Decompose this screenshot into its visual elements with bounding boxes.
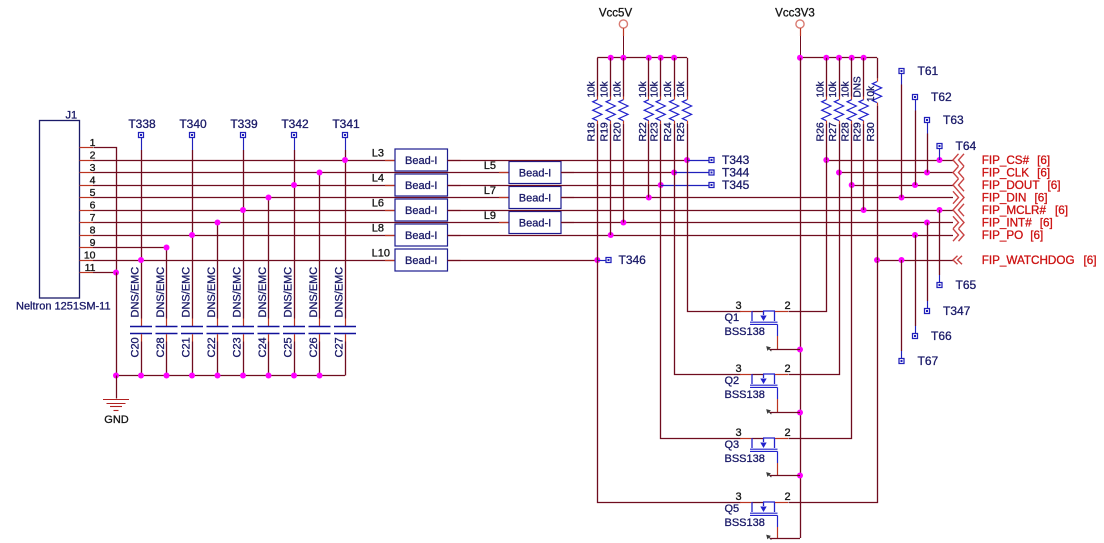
- svg-text:2: 2: [784, 300, 790, 312]
- svg-text:DNS/EMC: DNS/EMC: [155, 267, 167, 318]
- svg-text:R26: R26: [814, 122, 826, 141]
- svg-text:Q2: Q2: [725, 375, 740, 387]
- J1 pin 1 (stub and pin number): [80, 137, 96, 149]
- ferrite bead L10: [385, 249, 461, 271]
- off-page connector FIP_WATCHDOG: [953, 256, 962, 264]
- wire C23 column (junction to cap): [243, 210, 245, 319]
- svg-text:10k: 10k: [841, 80, 852, 97]
- junction C26 tap on pin 3 row: [317, 170, 323, 176]
- svg-text:FIP_PO[6]: FIP_PO[6]: [982, 229, 1044, 242]
- svg-text:R22: R22: [637, 122, 649, 141]
- wire T61 to row: [901, 85, 903, 198]
- junction Vcc3V3 stem on bus: [797, 55, 803, 61]
- svg-text:3: 3: [735, 491, 741, 503]
- junction Q2 source on Vcc3V3 column: [797, 410, 803, 416]
- svg-text:Q5: Q5: [725, 503, 740, 515]
- wire L6 output / FIP_MCLR# row: [448, 210, 954, 212]
- wire L3 output to T343: [448, 160, 688, 162]
- svg-text:L7: L7: [484, 185, 496, 197]
- wire R25 column lower: [687, 124, 689, 160]
- wire R24 column to Q2 gate: [675, 173, 741, 375]
- wire FIP_CLK 3V3 segment: [839, 172, 953, 174]
- transistor Q5 BSS138 (MOSFET): [740, 502, 788, 540]
- wire C23 to ground rail: [243, 342, 245, 376]
- junction R29 on Vcc3V3 bus: [861, 55, 867, 61]
- off-page connector FIP_CS#: [953, 154, 964, 166]
- wire J1 pin 6 row: [93, 210, 395, 212]
- wire FIP_DOUT 3V3 segment: [852, 185, 953, 187]
- svg-text:4: 4: [90, 175, 96, 187]
- wire R23 column lower: [660, 124, 662, 185]
- wire R27 column to Q2 drain: [789, 173, 840, 375]
- ferrite bead L5: [499, 162, 574, 184]
- svg-text:R28: R28: [840, 122, 852, 141]
- test point T345: [709, 178, 750, 192]
- ferrite bead L4: [385, 174, 461, 196]
- svg-text:C25: C25: [283, 337, 295, 357]
- svg-text:L4: L4: [372, 173, 384, 185]
- wire T341 column to junction: [345, 150, 347, 160]
- svg-text:10k: 10k: [650, 80, 661, 97]
- svg-text:R29: R29: [852, 122, 864, 141]
- svg-text:T62: T62: [931, 90, 952, 104]
- junction C24 tap on pin 5 row: [266, 195, 272, 201]
- svg-text:10k: 10k: [866, 85, 877, 102]
- wire Vcc5V bus: [597, 57, 687, 59]
- wire J1 pin 1 to GND column: [94, 148, 117, 273]
- wire C28 column (junction to cap): [166, 248, 168, 319]
- resistor R30 10k: [872, 78, 881, 105]
- junction C25 on rail: [291, 373, 297, 379]
- wire R30 column to Q5 drain: [789, 261, 878, 503]
- svg-text:R18: R18: [585, 122, 597, 141]
- wire FIP_WATCHDOG 3V3 segment: [877, 260, 953, 262]
- wire J1 pin 11 row: [93, 272, 116, 274]
- wire Vcc3V3 column down to transistor sources: [800, 58, 802, 538]
- svg-text:2: 2: [90, 150, 96, 162]
- wire L7 output / FIP_DIN row: [561, 197, 953, 199]
- wire C24 column (junction to cap): [268, 198, 270, 319]
- junction R22 on FIP_DIN: [646, 195, 652, 201]
- svg-text:10k: 10k: [586, 80, 597, 97]
- svg-text:2: 2: [784, 363, 790, 375]
- svg-text:Bead-I: Bead-I: [405, 205, 437, 217]
- junction R30/Q5 drain on FIP_WATCHDOG: [874, 257, 880, 263]
- wire R18 column lower: [597, 124, 599, 260]
- J1 pin 5 (stub and pin number): [80, 187, 96, 199]
- junction R20 on Vcc5V bus: [620, 55, 626, 61]
- J1 pin 7 (stub and pin number): [80, 212, 96, 224]
- off-page connector FIP_DOUT: [953, 179, 964, 191]
- svg-text:C23: C23: [232, 337, 244, 357]
- svg-text:10k: 10k: [676, 80, 687, 97]
- wire L5 output to T344: [561, 172, 674, 174]
- svg-text:T64: T64: [956, 139, 977, 153]
- ferrite bead L7: [499, 187, 574, 209]
- wire T63 to row: [927, 134, 929, 173]
- wire T67 to row: [901, 260, 903, 351]
- junction R22 on Vcc5V bus: [646, 55, 652, 61]
- wire J1 pin 8 row: [93, 235, 395, 237]
- wire T65 to row: [939, 210, 941, 275]
- test point T63: [925, 113, 965, 134]
- test point T340: [179, 117, 207, 150]
- wire R24 column lower: [674, 124, 676, 173]
- junction T63 on FIP_CLK: [924, 170, 930, 176]
- junction C23 on rail: [240, 373, 246, 379]
- wire Q3 source to Vcc3V3 column: [770, 475, 800, 477]
- svg-text:T346: T346: [619, 253, 647, 267]
- wire R23 column to Q3 gate: [661, 186, 741, 439]
- wire C20 to ground rail: [141, 342, 143, 376]
- resistor R27 10k: [834, 97, 843, 124]
- junction R18 on L10 net: [594, 257, 600, 263]
- wire R22 column lower: [648, 124, 650, 198]
- svg-text:DNS/EMC: DNS/EMC: [181, 267, 193, 318]
- test point T62: [913, 90, 953, 111]
- capacitor C20: [130, 319, 152, 342]
- junction T67 on FIP_WATCHDOG: [899, 257, 905, 263]
- wire J1 pin 7 row: [93, 222, 509, 224]
- junction R28/Q3 drain on FIP_DOUT: [849, 182, 855, 188]
- wire L8 output / FIP_PO row: [448, 235, 954, 237]
- svg-text:L6: L6: [372, 198, 384, 210]
- svg-text:C24: C24: [257, 337, 269, 357]
- wire R23 column upper: [660, 58, 662, 97]
- svg-text:6: 6: [90, 200, 96, 212]
- svg-text:DNS/EMC: DNS/EMC: [130, 267, 142, 318]
- svg-text:T340: T340: [179, 117, 207, 131]
- svg-text:T338: T338: [128, 117, 156, 131]
- wire C27 to ground rail: [345, 342, 347, 376]
- svg-text:Bead-I: Bead-I: [519, 168, 551, 180]
- svg-text:T345: T345: [722, 178, 750, 192]
- svg-text:GND: GND: [104, 414, 129, 426]
- wire T64 to row: [939, 159, 941, 162]
- svg-text:Q1: Q1: [725, 312, 740, 324]
- junction C28 tap on pin 9 row: [164, 245, 170, 251]
- junction R26/Q1 drain on FIP_CS#: [823, 157, 829, 163]
- wire C21 column (junction to cap): [192, 235, 194, 319]
- junction T62 on FIP_DOUT: [912, 182, 918, 188]
- svg-text:R24: R24: [662, 122, 674, 141]
- junction R27/Q2 drain on FIP_CLK: [836, 170, 842, 176]
- junction T65 on FIP_MCLR#: [937, 207, 943, 213]
- svg-text:2: 2: [784, 491, 790, 503]
- wire Q2 source to Vcc3V3 column: [770, 412, 800, 414]
- test point T64: [937, 139, 977, 160]
- svg-text:C22: C22: [206, 337, 218, 357]
- wire R19 column upper: [610, 58, 612, 97]
- svg-text:DNS/EMC: DNS/EMC: [334, 267, 346, 318]
- svg-text:Neltron 1251SM-11: Neltron 1251SM-11: [16, 301, 111, 313]
- wire Vcc3V3 bus: [800, 57, 877, 59]
- wire ground rail: [116, 375, 345, 377]
- svg-text:DNS/EMC: DNS/EMC: [206, 267, 218, 318]
- test point T338: [128, 117, 156, 150]
- resistor R26 10k: [822, 97, 831, 124]
- J1 pin 8 (stub and pin number): [80, 225, 96, 237]
- wire R19 column lower: [610, 124, 612, 235]
- wire C26 to ground rail: [319, 342, 321, 376]
- junction R19 on Vcc5V bus: [608, 55, 614, 61]
- junction C26 on rail: [317, 373, 323, 379]
- off-page connector FIP_MCLR#: [953, 204, 964, 216]
- wire R25 column to Q1 gate: [688, 161, 741, 312]
- svg-text:FIP_DIN[6]: FIP_DIN[6]: [982, 192, 1048, 205]
- capacitor C27: [334, 319, 356, 342]
- svg-text:L9: L9: [484, 210, 496, 222]
- capacitor C21: [181, 319, 203, 342]
- junction C21 tap on pin 8 row: [189, 232, 195, 238]
- junction R19 on FIP_PO: [608, 232, 614, 238]
- ground symbol GND: [103, 376, 129, 411]
- svg-text:R27: R27: [827, 122, 839, 141]
- svg-text:T341: T341: [332, 117, 360, 131]
- test point T342: [281, 117, 309, 150]
- svg-text:DNS/EMC: DNS/EMC: [308, 267, 320, 318]
- svg-text:R23: R23: [649, 122, 661, 141]
- wire FIP_CS# 3V3 segment: [826, 160, 953, 162]
- J1 pin 9 (stub and pin number): [80, 237, 96, 249]
- power symbol Vcc5V: [619, 20, 627, 58]
- test point T343: [709, 153, 750, 167]
- wire T339 column to junction: [243, 150, 245, 210]
- resistor R20 10k: [619, 97, 628, 124]
- svg-text:T67: T67: [918, 354, 939, 368]
- svg-text:FIP_CLK[6]: FIP_CLK[6]: [982, 167, 1050, 180]
- wire R26 column to Q1 drain: [789, 161, 827, 312]
- svg-text:T347: T347: [943, 304, 971, 318]
- wire J1 pin 2 row: [93, 160, 395, 162]
- transistor Q1 BSS138 (MOSFET): [740, 311, 788, 351]
- svg-text:C26: C26: [308, 337, 320, 357]
- junction R23 on Vcc5V bus: [658, 55, 664, 61]
- junction C25 tap on pin 4 row: [291, 182, 297, 188]
- resistor R29 DNS: [859, 97, 868, 124]
- capacitor C23: [232, 319, 254, 342]
- resistor R25 10k: [682, 97, 691, 124]
- svg-text:T61: T61: [918, 64, 939, 78]
- junction Q1 source on Vcc3V3 column: [797, 347, 803, 353]
- test point T65: [937, 275, 977, 292]
- test point T346: [606, 253, 646, 267]
- wire T62 to row: [915, 111, 917, 186]
- svg-text:C28: C28: [155, 337, 167, 357]
- wire T340 column to junction: [192, 150, 194, 235]
- svg-text:T65: T65: [956, 278, 977, 292]
- wire R20 column upper: [623, 58, 625, 97]
- svg-text:C20: C20: [130, 337, 142, 357]
- wire R18 column to Q5 gate: [598, 261, 741, 503]
- capacitor C24: [258, 319, 280, 342]
- svg-text:FIP_WATCHDOG[6]: FIP_WATCHDOG[6]: [982, 254, 1097, 267]
- wire C26 column (junction to cap): [319, 173, 321, 319]
- svg-text:R30: R30: [865, 122, 877, 141]
- off-page connector FIP_PO: [953, 229, 964, 241]
- junction T64 on FIP_CS#: [937, 157, 943, 163]
- wire C22 to ground rail: [217, 342, 219, 376]
- svg-text:Bead-I: Bead-I: [519, 193, 551, 205]
- svg-text:Q3: Q3: [725, 439, 740, 451]
- resistor R18 10k: [593, 97, 602, 124]
- transistor Q2 BSS138 (MOSFET): [740, 374, 788, 414]
- wire J1 pin 3 row: [93, 172, 509, 174]
- wire C22 column (junction to cap): [217, 223, 219, 319]
- off-page connector FIP_INT#: [953, 216, 964, 228]
- wire T66 to row: [915, 235, 917, 326]
- wire Q5 source to Vcc3V3 column: [770, 538, 800, 540]
- wire L4 output to T345: [448, 185, 661, 187]
- wire R30 column lower: [877, 106, 879, 260]
- wire C28 to ground rail: [166, 342, 168, 376]
- svg-text:BSS138: BSS138: [725, 453, 765, 465]
- off-page connector FIP_CLK: [953, 166, 964, 178]
- svg-text:10k: 10k: [600, 80, 611, 97]
- svg-text:T342: T342: [281, 117, 309, 131]
- wire C25 to ground rail: [294, 342, 296, 376]
- svg-text:10: 10: [84, 250, 96, 262]
- svg-text:Bead-I: Bead-I: [405, 155, 437, 167]
- svg-text:T339: T339: [230, 117, 258, 131]
- junction R25 on FIP_CS# 5V side: [684, 157, 690, 163]
- wire R24 column upper: [674, 58, 676, 97]
- wire R26 column lower: [826, 124, 828, 160]
- resistor R19 10k: [606, 97, 615, 124]
- svg-text:C21: C21: [181, 337, 193, 357]
- svg-text:R25: R25: [675, 122, 687, 141]
- svg-text:L8: L8: [372, 223, 384, 235]
- junction C20 tap on pin 10 row: [138, 257, 144, 263]
- J1 pin 4 (stub and pin number): [80, 175, 96, 187]
- test point T347: [925, 301, 971, 318]
- junction C24 on rail: [266, 373, 272, 379]
- capacitor C26: [309, 319, 331, 342]
- J1 pin 3 (stub and pin number): [80, 162, 96, 174]
- svg-text:J1: J1: [66, 110, 78, 122]
- junction T347 on FIP_INT#: [924, 220, 930, 226]
- test point T67: [899, 351, 939, 368]
- svg-text:8: 8: [90, 225, 96, 237]
- svg-text:Vcc5V: Vcc5V: [599, 8, 633, 20]
- wire R28 column lower: [851, 124, 853, 185]
- svg-text:R20: R20: [611, 122, 623, 141]
- resistor R28 10k: [847, 97, 856, 124]
- svg-text:10k: 10k: [638, 80, 649, 97]
- test point T61: [899, 64, 939, 85]
- junction T61 on FIP_DIN: [899, 195, 905, 201]
- junction R29 on FIP_MCLR#: [861, 207, 867, 213]
- wire C20 column (junction to cap): [141, 260, 143, 319]
- wire R22 column upper: [648, 58, 650, 97]
- wire R30 column upper: [877, 58, 879, 79]
- junction C20 on rail: [138, 373, 144, 379]
- wire R27 column lower: [839, 124, 841, 173]
- J1 pin 11 (stub and pin number): [80, 262, 96, 274]
- ferrite bead L9: [499, 212, 574, 234]
- svg-text:3: 3: [735, 300, 741, 312]
- svg-text:2: 2: [784, 427, 790, 439]
- wire C21 to ground rail: [192, 342, 194, 376]
- power symbol Vcc3V3: [796, 20, 804, 58]
- wire L10 output to T346: [448, 260, 598, 262]
- svg-text:R19: R19: [599, 122, 611, 141]
- svg-text:3: 3: [735, 427, 741, 439]
- junction R28 on Vcc3V3 bus: [849, 55, 855, 61]
- wire R27 column upper: [839, 58, 841, 97]
- svg-text:L5: L5: [484, 160, 496, 172]
- svg-text:DNS: DNS: [853, 76, 864, 97]
- svg-text:T63: T63: [943, 113, 964, 127]
- wire J1 pin 4 row: [93, 185, 395, 187]
- junction R23 on FIP_DOUT 5V side: [658, 182, 664, 188]
- wire R20 column lower: [623, 124, 625, 223]
- svg-text:FIP_DOUT[6]: FIP_DOUT[6]: [982, 179, 1061, 192]
- junction C23 tap on pin 6 row: [240, 207, 246, 213]
- junction GND stem on rail: [113, 373, 119, 379]
- svg-text:10k: 10k: [612, 80, 623, 97]
- wire T338 column to junction: [141, 150, 143, 260]
- svg-text:Bead-I: Bead-I: [405, 255, 437, 267]
- svg-text:L10: L10: [372, 248, 390, 260]
- svg-text:DNS/EMC: DNS/EMC: [283, 267, 295, 318]
- junction C22 on rail: [215, 373, 221, 379]
- junction C21 on rail: [189, 373, 195, 379]
- off-page connector FIP_DIN: [953, 191, 964, 203]
- wire R26 column upper: [826, 58, 828, 97]
- J1 pin 10 (stub and pin number): [80, 250, 96, 262]
- svg-text:BSS138: BSS138: [725, 517, 765, 529]
- capacitor C22: [207, 319, 229, 342]
- transistor Q3 BSS138 (MOSFET): [740, 438, 788, 477]
- wire R29 column upper: [863, 58, 865, 97]
- ferrite bead L3: [385, 149, 461, 171]
- svg-text:3: 3: [735, 363, 741, 375]
- test point T344: [709, 166, 750, 180]
- junction R20 on FIP_INT#: [620, 220, 626, 226]
- junction R24 on Vcc5V bus: [671, 55, 677, 61]
- junction R27 on Vcc3V3 bus: [836, 55, 842, 61]
- svg-text:FIP_INT#[6]: FIP_INT#[6]: [982, 217, 1053, 230]
- svg-text:Bead-I: Bead-I: [405, 180, 437, 192]
- svg-text:FIP_CS#[6]: FIP_CS#[6]: [982, 154, 1050, 167]
- svg-text:DNS/EMC: DNS/EMC: [232, 267, 244, 318]
- ferrite bead L6: [385, 199, 461, 221]
- wire R18 column upper: [597, 58, 599, 97]
- svg-text:Bead-I: Bead-I: [519, 218, 551, 230]
- svg-text:BSS138: BSS138: [725, 326, 765, 338]
- wire GND column down to ground rail: [116, 273, 118, 376]
- wire C25 column (junction to cap): [294, 185, 296, 319]
- svg-text:L3: L3: [372, 148, 384, 160]
- J1 pin 2 (stub and pin number): [80, 150, 96, 162]
- wire R28 column to Q3 drain: [789, 186, 852, 439]
- wire J1 pin 10 row: [93, 260, 395, 262]
- svg-text:10k: 10k: [815, 80, 826, 97]
- wire C24 to ground rail: [268, 342, 270, 376]
- junction R24 on FIP_CLK 5V side: [671, 170, 677, 176]
- wire R29 column lower: [863, 124, 865, 210]
- capacitor C28: [156, 319, 178, 342]
- svg-text:10k: 10k: [663, 80, 674, 97]
- svg-text:DNS/EMC: DNS/EMC: [257, 267, 269, 318]
- test point T66: [913, 326, 953, 343]
- J1 pin 6 (stub and pin number): [80, 200, 96, 212]
- wire T347 to row: [927, 223, 929, 302]
- svg-text:Vcc3V3: Vcc3V3: [775, 8, 815, 20]
- svg-text:BSS138: BSS138: [725, 389, 765, 401]
- test point T341: [332, 117, 360, 150]
